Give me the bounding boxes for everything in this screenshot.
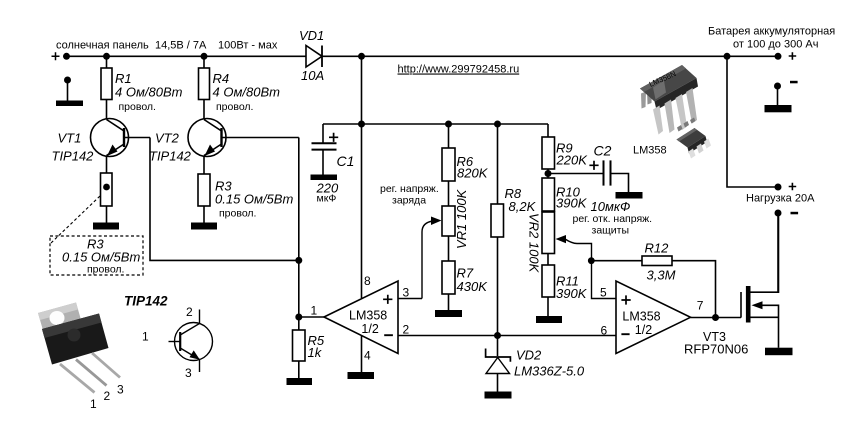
svg-text:Батарея аккумуляторная: Батарея аккумуляторная: [708, 26, 835, 38]
potentiometer VR2: [527, 211, 617, 299]
label R3 dashed callout box: [50, 196, 143, 276]
svg-text:VR2 100K: VR2 100K: [527, 213, 542, 274]
transistor VT2 TIP142: [149, 119, 299, 164]
svg-text:1: 1: [90, 397, 97, 411]
op-amp U1A LM358: [299, 274, 410, 363]
svg-text:390K: 390K: [556, 286, 588, 301]
node load plus: [775, 184, 782, 191]
wire VT1 emitter: [106, 156, 108, 174]
svg-text:2: 2: [186, 305, 193, 319]
svg-text:провол.: провол.: [219, 208, 256, 220]
resistor R1: [101, 53, 183, 119]
node pin2 R8 VD2 junction: [494, 332, 501, 339]
svg-text:1/2: 1/2: [361, 322, 378, 336]
resistor R3 (VT2 emitter): [198, 174, 293, 223]
svg-text:LM358: LM358: [633, 145, 667, 157]
svg-text:1k: 1k: [308, 345, 323, 360]
transistor TIP142 pinout symbol: [142, 305, 213, 380]
ground battery minus: [765, 105, 792, 112]
photo SOIC-8 LM358: [677, 118, 712, 159]
svg-text:820K: 820K: [457, 165, 489, 180]
node output R12 junction: [712, 314, 719, 321]
svg-text:0.15 Ом/5Вт: 0.15 Ом/5Вт: [62, 250, 140, 265]
svg-text:провол.: провол.: [119, 101, 156, 113]
wire VT2 emitter: [203, 156, 205, 175]
node battery minus: [774, 83, 781, 90]
node load minus: [775, 210, 782, 217]
svg-text:TIP142: TIP142: [124, 294, 168, 309]
svg-text:мкФ: мкФ: [317, 193, 337, 205]
transistor VT3 RFP70N06 mosfet: [684, 213, 779, 357]
svg-text:C2: C2: [594, 143, 612, 159]
ground under C2: [616, 192, 643, 199]
svg-text:TIP142: TIP142: [52, 149, 95, 164]
op-amp U1B LM358: [600, 281, 704, 354]
svg-text:14,5В / 7А: 14,5В / 7А: [155, 40, 207, 52]
resistor R3 (VT1 emitter): [101, 173, 113, 223]
svg-text:1: 1: [142, 330, 149, 344]
svg-text:8: 8: [364, 274, 371, 288]
capacitor C1: [312, 124, 355, 205]
wire pin2 net: [398, 335, 616, 337]
svg-text:1: 1: [311, 304, 318, 318]
svg-text:от 100 до 300 Ач: от 100 до 300 Ач: [733, 39, 818, 51]
wire battery minus to ground: [777, 86, 779, 105]
svg-text:4 Ом/80Вт: 4 Ом/80Вт: [213, 85, 281, 100]
potentiometer VR1: [422, 188, 469, 298]
wire mid bus: [323, 123, 548, 125]
svg-text:100Вт - мах: 100Вт - мах: [218, 40, 278, 52]
svg-text:LM358: LM358: [622, 310, 660, 324]
resistor R12: [591, 241, 715, 318]
svg-text:VD2: VD2: [516, 348, 542, 363]
wire pin3: [398, 298, 422, 300]
svg-text:10мкФ: 10мкФ: [591, 199, 631, 214]
node base bus junction: [295, 257, 302, 264]
svg-text:430K: 430K: [457, 279, 489, 294]
svg-text:3: 3: [185, 366, 192, 380]
node op-amp1 input junction: [295, 314, 302, 321]
svg-text:2: 2: [104, 389, 111, 403]
wire main vertical to op-amp pin 8: [361, 56, 363, 298]
wire pin4 to ground: [361, 336, 363, 372]
svg-text:10A: 10A: [301, 68, 324, 83]
ground under VT3 source: [765, 348, 793, 356]
resistor R4: [199, 53, 281, 119]
diode VD1: [299, 28, 324, 83]
wire top bus: [67, 55, 307, 57]
resistor R5: [293, 317, 325, 378]
svg-text:Нагрузка 20А: Нагрузка 20А: [746, 193, 815, 205]
svg-text:8,2K: 8,2K: [509, 199, 537, 214]
svg-text:7: 7: [697, 299, 704, 313]
ground under VT2 R3: [191, 223, 217, 230]
svg-text:TIP142: TIP142: [149, 149, 192, 164]
svg-text:RFP70N06: RFP70N06: [684, 342, 748, 357]
ground under R3: [93, 223, 119, 230]
svg-text:2: 2: [403, 323, 410, 337]
ground under op-amp pin4: [348, 372, 375, 379]
svg-text:VT1: VT1: [58, 131, 82, 146]
svg-text:C1: C1: [337, 153, 355, 169]
capacitor C2: [548, 143, 630, 215]
svg-text:1/2: 1/2: [635, 323, 652, 337]
zener diode VD2 LM336Z-5.0: [486, 336, 585, 392]
wire base bus vertical: [298, 138, 300, 318]
svg-text:VT2: VT2: [155, 131, 180, 146]
svg-text:http://www.299792458.ru: http://www.299792458.ru: [398, 64, 520, 76]
svg-text:0.15 Ом/5Вт: 0.15 Ом/5Вт: [215, 192, 293, 207]
svg-text:LM358: LM358: [349, 309, 387, 323]
ground under R7: [435, 310, 462, 317]
svg-text:провол.: провол.: [216, 101, 253, 113]
node battery plus: [775, 53, 782, 60]
svg-text:5: 5: [600, 286, 607, 300]
transistor VT1 TIP142: [52, 119, 151, 164]
ground under R11: [536, 316, 562, 323]
resistor R7: [442, 236, 488, 310]
wire op-amp2 output: [691, 317, 742, 319]
wire VT1 base to bus: [150, 138, 299, 261]
node solar plus terminal: [52, 52, 60, 60]
resistor R11: [542, 265, 588, 316]
svg-text:4 Ом/80Вт: 4 Ом/80Вт: [115, 85, 183, 100]
svg-text:солнечная панель: солнечная панель: [56, 40, 149, 52]
svg-text:220K: 220K: [556, 153, 589, 168]
svg-text:рег. напряж.: рег. напряж.: [380, 183, 439, 195]
svg-text:4: 4: [364, 349, 371, 363]
resistor R10: [542, 178, 588, 211]
svg-text:защиты: защиты: [592, 225, 630, 237]
ground under R5: [287, 378, 313, 385]
svg-text:6: 6: [601, 324, 608, 338]
svg-text:LM336Z-5.0: LM336Z-5.0: [514, 364, 585, 379]
wire load minus to VT3 drain: [777, 213, 779, 292]
wire load branch: [727, 56, 778, 187]
svg-text:провол.: провол.: [87, 264, 124, 276]
node pin5 R12 junction: [588, 257, 595, 264]
svg-text:заряда: заряда: [392, 195, 426, 207]
svg-text:VR1 100K: VR1 100K: [454, 188, 469, 249]
resistor R6: [442, 121, 489, 207]
svg-text:R12: R12: [645, 241, 670, 256]
ground under VD2: [485, 392, 512, 399]
photo TIP142 package: [38, 303, 124, 412]
svg-text:рег. отк. напряж.: рег. отк. напряж.: [573, 213, 653, 225]
svg-text:3: 3: [117, 383, 124, 397]
svg-text:390K: 390K: [556, 196, 588, 211]
svg-text:3,3M: 3,3M: [647, 268, 676, 283]
svg-text:VD1: VD1: [299, 28, 324, 43]
ground under C1: [311, 175, 338, 181]
resistor R8: [491, 121, 537, 336]
ground solar minus: [64, 77, 71, 84]
photo DIP-8 LM358: [640, 65, 698, 135]
svg-text:3: 3: [403, 286, 410, 300]
resistor R9: [542, 124, 588, 178]
